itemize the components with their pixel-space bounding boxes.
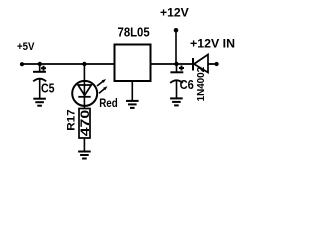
svg-text:+12V IN: +12V IN (190, 36, 235, 50)
wire: C5 to ground (39, 79, 41, 99)
svg-text:1N4002: 1N4002 (196, 66, 207, 101)
wire: +12V terminal down to rail (175, 30, 177, 64)
regulator U1 78L05 box (115, 45, 151, 82)
junction dot C5 branch (38, 62, 42, 66)
wire: 78L05 output rail to diode (151, 63, 193, 65)
ground below R17 (78, 152, 91, 159)
ground below C6 (170, 98, 183, 105)
wire: C6 to ground (176, 80, 178, 99)
ground below C5 (33, 99, 46, 106)
diode D1 cathode bar (192, 58, 194, 71)
svg-text:470: 470 (78, 109, 92, 136)
capacitor C5 top plate (33, 71, 46, 73)
LED emission arrow upper (97, 79, 106, 86)
svg-text:R17: R17 (66, 109, 78, 131)
capacitor C6 polarity plus (179, 66, 184, 71)
LED LED1 circle (72, 81, 97, 106)
node +12V terminal dot (174, 28, 179, 33)
node +5V terminal dot (20, 62, 24, 66)
resistor R17 box (79, 109, 90, 139)
node +12V IN terminal dot (215, 62, 219, 66)
wire: resistor to ground (83, 138, 85, 152)
svg-text:C6: C6 (180, 77, 194, 92)
wire: diode to +12V IN terminal (208, 63, 217, 65)
junction dot C6 / +12V (174, 62, 178, 66)
capacitor C6 top plate (170, 71, 183, 73)
LED emission arrow lower (99, 86, 108, 93)
LED triangle (78, 85, 91, 95)
svg-text:C5: C5 (41, 80, 55, 95)
wire: LED branch down through LED to resistor (83, 64, 85, 109)
junction dot LED branch (82, 62, 86, 66)
capacitor C6 bottom curved plate (170, 80, 183, 83)
capacitor C5 bottom curved plate (33, 79, 46, 82)
capacitor C5 polarity plus (41, 66, 46, 71)
wire: 78L05 ground pin (131, 81, 133, 101)
svg-text:Red: Red (99, 96, 118, 110)
ground below 78L05 (126, 101, 139, 108)
svg-text:78L05: 78L05 (118, 25, 150, 40)
diode D1 triangle (194, 55, 208, 73)
svg-text:+12V: +12V (160, 6, 189, 20)
wire: +5V rail from terminal to 78L05 input (22, 63, 115, 65)
wire: C6 branch stub (176, 64, 178, 72)
wire: C5 branch stub (39, 64, 41, 72)
LED cathode bar (78, 96, 90, 98)
svg-text:+5V: +5V (17, 41, 35, 53)
